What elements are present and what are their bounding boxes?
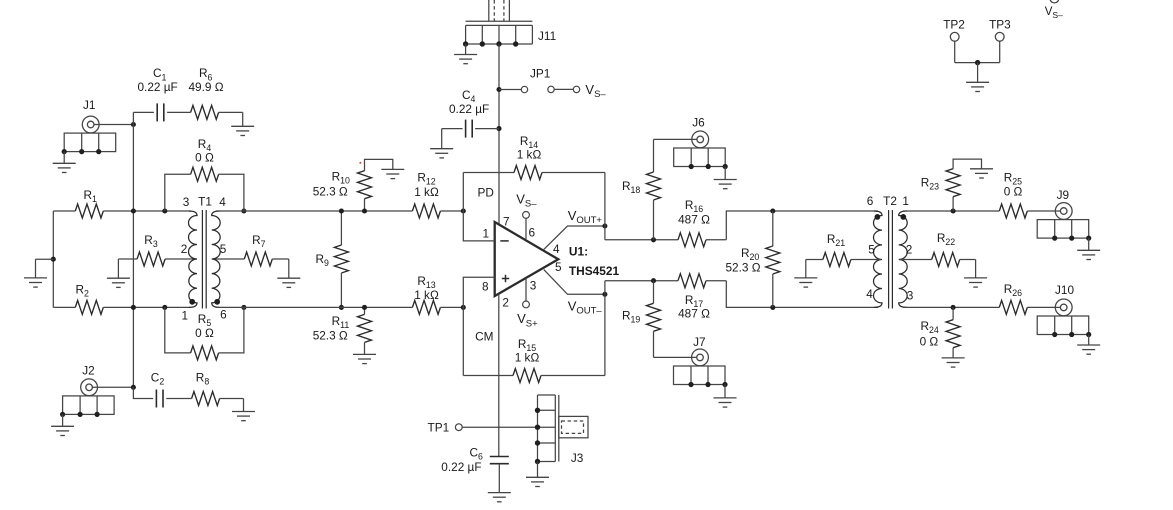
connector J2 — [60, 364, 114, 417]
svg-text:TP2: TP2 — [943, 18, 965, 32]
test point TP1 — [428, 420, 538, 434]
resistor R26 — [999, 282, 1060, 314]
ground (R6) — [231, 112, 254, 135]
connector J10 — [1037, 283, 1091, 337]
svg-text:52.3 Ω: 52.3 Ω — [313, 185, 348, 199]
wire J2 to input rail — [92, 385, 136, 390]
connector J7 — [654, 335, 728, 387]
svg-text:U1:: U1: — [569, 244, 588, 258]
resistor R17 487 ohm — [678, 274, 726, 321]
U1 pin 8 input wire (IN+) — [461, 277, 495, 375]
resistor R20 52.3 ohm — [726, 211, 780, 307]
U1 pin 5 output wire VOUT- — [544, 260, 608, 317]
svg-text:2: 2 — [906, 243, 913, 257]
wire R17 step down to T2 bottom rail — [726, 281, 878, 310]
svg-text:J1: J1 — [83, 98, 95, 112]
svg-text:4: 4 — [866, 287, 873, 301]
U1 pin1/7 labels — [478, 186, 510, 241]
U1 pin8/2 labels — [475, 280, 509, 344]
svg-text:2: 2 — [502, 296, 509, 310]
test point TP2 — [943, 18, 965, 63]
resistor R5 0 ohm (bottom loop) — [165, 307, 244, 360]
red speck artifact — [360, 162, 362, 164]
resistor R4 0 ohm (top loop) — [165, 137, 244, 211]
transformer T1 primary winding — [189, 211, 198, 307]
resistor R12 1 kohm — [412, 171, 463, 219]
resistor R9 (differential termination) — [316, 208, 349, 310]
ground (left rail) — [24, 259, 53, 287]
svg-text:1: 1 — [902, 194, 909, 208]
wire top rail T1 to R12 — [216, 210, 413, 212]
svg-text:0.22 µF: 0.22 µF — [441, 460, 481, 474]
svg-text:487 Ω: 487 Ω — [678, 307, 710, 321]
svg-text:3: 3 — [907, 289, 914, 303]
ground (R7) — [277, 259, 300, 287]
T2 pin labels — [866, 194, 914, 303]
ground (R21) — [794, 260, 817, 288]
wire input rail (vertical node A) — [132, 112, 134, 387]
svg-text:7: 7 — [503, 214, 510, 228]
resistor R13 1 kohm — [412, 274, 463, 314]
ground (J2) — [51, 414, 74, 435]
wire J11 to PD pin — [498, 44, 500, 225]
U1 pin 4 output wire VOUT+ — [544, 208, 608, 256]
test point TP3 — [989, 18, 1011, 63]
svg-text:8: 8 — [482, 280, 489, 294]
svg-text:5: 5 — [220, 242, 227, 256]
plus sign (non-inverting input) — [502, 275, 509, 282]
wire R16 step up to T2 top rail — [726, 208, 878, 239]
svg-text:1: 1 — [182, 309, 189, 323]
svg-text:0.22 µF: 0.22 µF — [449, 102, 489, 116]
svg-text:1 kΩ: 1 kΩ — [414, 185, 439, 199]
ground (R10) — [365, 159, 405, 178]
svg-text:1 kΩ: 1 kΩ — [414, 288, 439, 302]
net VS- stub (JP1) — [548, 82, 607, 100]
svg-text:J3: J3 — [571, 451, 584, 465]
svg-text:1 kΩ: 1 kΩ — [517, 148, 542, 162]
svg-text:52.3 Ω: 52.3 Ω — [313, 328, 348, 342]
ground (R3) — [107, 259, 130, 287]
svg-text:6: 6 — [220, 308, 227, 322]
wire T2 pin3 to R26 — [903, 305, 1000, 310]
ground (C4) — [430, 129, 453, 158]
ground (J11) — [454, 44, 477, 64]
transformer T1 secondary winding — [212, 211, 221, 307]
connector J3 (CM header) — [535, 395, 588, 465]
wire TP2-TP3 common — [955, 60, 1000, 82]
transformer T2 core — [889, 210, 893, 309]
svg-text:1: 1 — [483, 227, 490, 241]
svg-text:6: 6 — [867, 194, 874, 208]
svg-text:TP3: TP3 — [989, 18, 1011, 32]
ground (C6) — [488, 464, 511, 502]
ground (J3) — [526, 462, 549, 487]
transformer T2 primary winding — [873, 211, 882, 307]
resistor R22 — [900, 231, 976, 267]
minus sign (inverting input) — [500, 240, 508, 242]
T1 phase dot pin1 — [189, 299, 195, 305]
svg-text:0 Ω: 0 Ω — [195, 326, 214, 340]
ground (J10) — [1077, 335, 1100, 355]
ground (J1) — [53, 152, 76, 173]
svg-text:0 Ω: 0 Ω — [1004, 185, 1023, 199]
svg-text:2: 2 — [181, 242, 188, 256]
resistor R21 — [806, 232, 881, 267]
ground (R22) — [964, 260, 987, 288]
capacitor C6 — [441, 446, 509, 475]
ground (R11) — [353, 342, 376, 363]
svg-text:THS4521: THS4521 — [569, 264, 620, 278]
net VS- top right (cut off) — [1045, 0, 1063, 20]
ground (J9) — [1077, 238, 1100, 259]
svg-text:3: 3 — [183, 195, 190, 209]
op-amp U1 THS4521 triangle — [495, 222, 620, 296]
ground (TP2/TP3) — [966, 82, 989, 91]
svg-text:1 kΩ: 1 kΩ — [515, 351, 540, 365]
svg-text:0 Ω: 0 Ω — [195, 150, 214, 164]
svg-text:PD: PD — [478, 186, 494, 200]
connector J1 — [62, 98, 116, 154]
U1 pin 1 input wire (IN-) — [461, 173, 495, 241]
resistor R7 — [213, 233, 289, 266]
svg-text:4: 4 — [219, 195, 226, 209]
svg-text:J11: J11 — [538, 29, 556, 43]
resistor R15 1 kohm (feedback-) — [463, 294, 605, 382]
wire bottom rail T1 to R13 — [216, 306, 413, 308]
ground (R24) — [942, 348, 965, 367]
resistor R8 — [192, 371, 244, 406]
T1 pin labels — [181, 195, 227, 323]
svg-text:T1: T1 — [198, 195, 212, 209]
wire T2 pin1 to R25 — [903, 208, 1000, 213]
resistor R19 — [622, 281, 661, 358]
ground (J6) — [714, 167, 737, 189]
transformer T1 core — [202, 210, 206, 309]
svg-text:5: 5 — [868, 243, 875, 257]
ground (R23) — [953, 159, 993, 178]
svg-text:J9: J9 — [1057, 188, 1069, 202]
svg-text:6: 6 — [529, 226, 536, 240]
transformer T2 secondary winding — [899, 211, 908, 307]
svg-text:J6: J6 — [692, 115, 705, 129]
capacitor C1 — [133, 66, 190, 121]
svg-text:J2: J2 — [82, 364, 94, 378]
connector J6 — [654, 115, 728, 169]
svg-text:0.22 µF: 0.22 µF — [138, 80, 178, 94]
svg-text:487 Ω: 487 Ω — [678, 212, 710, 226]
ground (J7) — [714, 385, 737, 408]
node dots on top rail — [131, 208, 247, 213]
node dots on bottom rail — [131, 305, 247, 310]
T1 phase dot pin6 — [214, 299, 220, 305]
U1 pin 6 VS- stub — [516, 192, 537, 240]
U1 pin 2 CM wire — [498, 294, 500, 457]
ground (R8) — [232, 399, 255, 421]
svg-text:J7: J7 — [693, 335, 705, 349]
U1 pin 3 VS+ stub — [517, 278, 538, 329]
resistor R25 0 ohm — [999, 171, 1060, 219]
resistor R14 1 kohm (feedback+) — [463, 134, 605, 226]
svg-text:T2: T2 — [883, 194, 897, 208]
svg-text:0 Ω: 0 Ω — [920, 334, 939, 348]
capacitor C2 — [133, 371, 191, 408]
resistor R10 52.3 ohm — [313, 169, 372, 213]
resistor R24 0 ohm — [920, 307, 961, 348]
jumper JP1 — [496, 67, 550, 93]
connector J11 (PD header) — [463, 0, 556, 47]
svg-text:CM: CM — [475, 330, 493, 344]
wire J1 to input rail — [94, 122, 136, 127]
svg-text:3: 3 — [530, 279, 537, 293]
resistor R6 49.9 ohm — [189, 66, 243, 119]
svg-text:TP1: TP1 — [428, 420, 450, 434]
resistor R16 487 ohm — [678, 198, 726, 247]
svg-text:J10: J10 — [1055, 283, 1074, 297]
resistor R18 — [622, 139, 661, 239]
T2 phase dot pin6 — [875, 214, 881, 220]
wire VOUT- to R17 row — [605, 278, 678, 294]
svg-text:5: 5 — [555, 260, 562, 274]
wire left rail — [51, 211, 56, 307]
resistor R3 — [118, 233, 196, 266]
svg-text:52.3 Ω: 52.3 Ω — [726, 261, 761, 275]
connector J9 — [1037, 188, 1091, 241]
wire VOUT+ to R16 row — [605, 226, 678, 242]
svg-text:4: 4 — [553, 242, 560, 256]
capacitor C4 — [442, 88, 502, 138]
svg-text:49.9 Ω: 49.9 Ω — [189, 80, 224, 94]
resistor R1 — [53, 188, 190, 218]
T2 phase dot pin1 — [900, 214, 906, 220]
resistor R23 — [921, 169, 960, 211]
svg-text:JP1: JP1 — [530, 67, 550, 81]
resistor R11 52.3 ohm — [313, 305, 372, 343]
resistor R2 — [53, 283, 190, 315]
